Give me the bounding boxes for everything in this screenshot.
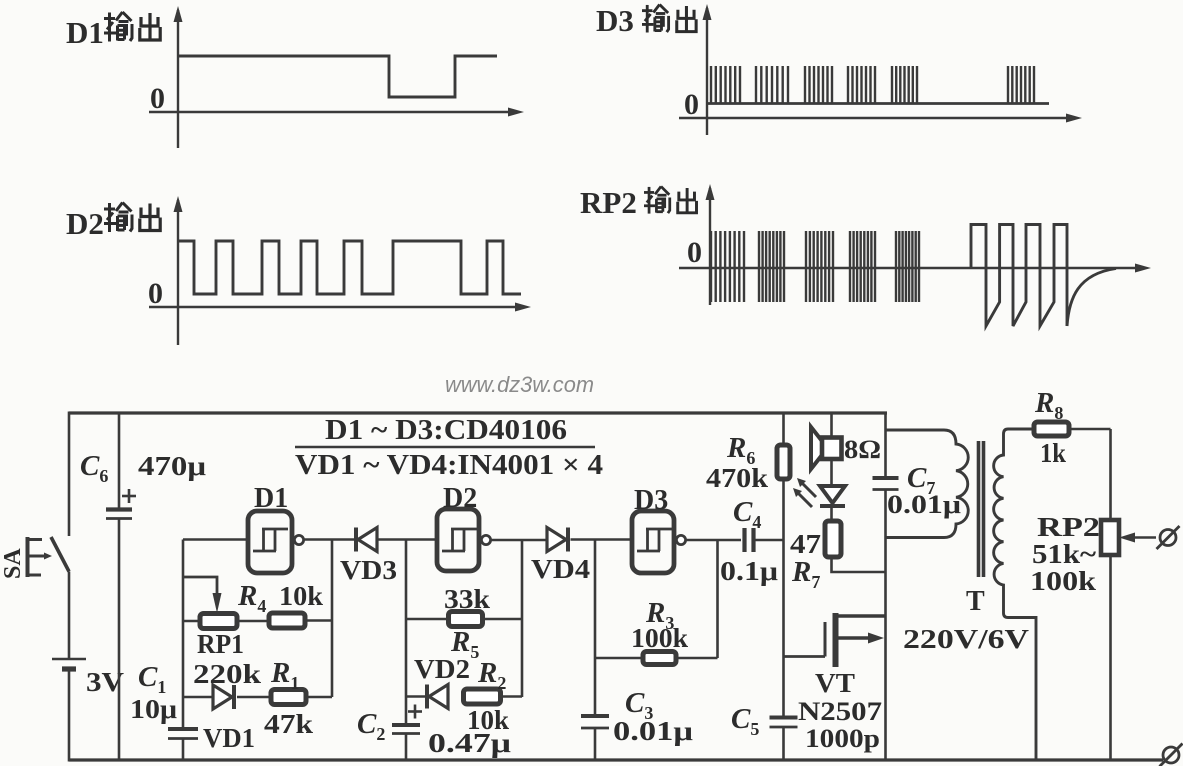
label 33k xyxy=(444,584,490,614)
D3 output pulse bursts xyxy=(711,66,1034,103)
svg-text:VD4: VD4 xyxy=(531,554,590,584)
svg-text:www.dz3w.com: www.dz3w.com xyxy=(445,372,594,397)
label VD1 xyxy=(203,723,255,753)
transformer T core xyxy=(979,441,984,577)
svg-text:1k: 1k xyxy=(1040,438,1066,468)
label VD4 xyxy=(531,554,590,584)
label 10k (R4) xyxy=(279,581,323,611)
diode VD4 xyxy=(547,528,633,552)
label 3V xyxy=(86,667,125,697)
svg-text:220k: 220k xyxy=(193,659,261,689)
potentiometer RP1 body xyxy=(183,614,269,629)
D1 plot horizontal axis xyxy=(149,108,524,117)
label R6 xyxy=(726,432,755,468)
wire: D2 output to VD4 xyxy=(491,539,547,542)
svg-text:51k~: 51k~ xyxy=(1032,539,1096,569)
svg-text:0.01μ: 0.01μ xyxy=(613,716,693,746)
capacitor C1 xyxy=(168,729,198,761)
D3 trace baseline xyxy=(707,102,1049,105)
wire: R6 branch rail xyxy=(782,413,785,718)
svg-text:D2: D2 xyxy=(443,483,477,514)
label 100k (R3) xyxy=(631,623,688,653)
resistor R6 xyxy=(777,445,790,479)
wire: R3 right rail xyxy=(716,540,719,658)
resistor R8 xyxy=(1034,422,1111,436)
label: D2 output waveform title xyxy=(66,203,160,242)
svg-text:RP2: RP2 xyxy=(1037,512,1100,542)
transistor VT (MOSFET) xyxy=(784,613,886,667)
wire: D3 output to C4 xyxy=(686,539,741,542)
capacitor C6 xyxy=(106,510,132,519)
potentiometer RP2 body xyxy=(1101,520,1119,555)
D3 plot zero label xyxy=(684,88,699,121)
svg-text:470μ: 470μ xyxy=(138,451,206,481)
svg-text:0: 0 xyxy=(148,277,163,310)
label 1k xyxy=(1040,438,1066,468)
D2 plot horizontal axis xyxy=(149,303,531,312)
label: D1 output waveform title xyxy=(66,12,160,50)
svg-text:T: T xyxy=(966,586,985,617)
wire: right rail (drain/output) xyxy=(884,413,887,761)
label R5 xyxy=(450,626,479,662)
wire: speaker to LED xyxy=(830,459,833,487)
switch SA xyxy=(28,537,70,577)
RP2 exponential decay tail xyxy=(1067,269,1116,327)
transformer T primary winding xyxy=(886,430,969,538)
svg-text:100k: 100k xyxy=(631,623,688,653)
RP2 plot horizontal axis xyxy=(679,264,1151,273)
wire: left rail bottom segment xyxy=(68,669,71,762)
label SA (rotated) xyxy=(0,548,26,579)
diode VD3 xyxy=(356,528,439,552)
svg-text:VD1 ~ VD4:IN4001 × 4: VD1 ~ VD4:IN4001 × 4 xyxy=(295,450,603,481)
svg-text:VD1: VD1 xyxy=(203,723,255,753)
label 8ohm xyxy=(844,435,881,464)
C2 polarity plus xyxy=(408,705,422,719)
battery 3V xyxy=(52,659,86,669)
label R2 xyxy=(477,657,506,693)
svg-text:100k: 100k xyxy=(1030,566,1096,596)
wire: speaker branch from top rail xyxy=(830,413,833,438)
wire: RP2 to bottom rail xyxy=(1109,555,1112,761)
wire: C6 branch vertical xyxy=(118,413,121,761)
capacitor C7 xyxy=(873,478,899,490)
LED emission arrows xyxy=(793,478,816,507)
RP2 plot vertical axis xyxy=(706,184,715,305)
label: D3 output waveform title xyxy=(596,3,696,38)
capacitor C3 xyxy=(581,716,609,761)
svg-text:N2507: N2507 xyxy=(798,697,882,726)
title line 2: VD1~VD4 IN4001 x4 xyxy=(295,450,603,481)
svg-text:0.01μ: 0.01μ xyxy=(887,490,961,519)
schmitt inverter D2 xyxy=(437,509,491,571)
svg-text:D2: D2 xyxy=(66,206,104,241)
label R1 xyxy=(270,657,299,693)
label 220k xyxy=(193,659,261,689)
label 47k xyxy=(264,709,313,739)
label C6 xyxy=(80,450,108,486)
svg-text:RP2: RP2 xyxy=(580,185,637,220)
svg-text:0: 0 xyxy=(150,82,165,115)
resistor R2 xyxy=(464,689,523,704)
resistor R3 xyxy=(595,652,718,665)
D1 output trace xyxy=(178,56,497,97)
C6 polarity plus xyxy=(122,489,136,503)
wire: D2 feedback right rail xyxy=(521,540,524,697)
resistor R1 xyxy=(271,690,332,705)
label 0.01u (C7) xyxy=(887,490,961,519)
D2 plot vertical axis xyxy=(174,196,183,345)
label R8 xyxy=(1034,387,1063,423)
svg-text:0: 0 xyxy=(684,88,699,121)
svg-text:470k: 470k xyxy=(706,463,768,493)
label C2 xyxy=(357,708,385,744)
svg-text:D1: D1 xyxy=(254,483,288,514)
wire: D2 input rail xyxy=(405,540,408,726)
schmitt inverter D3 xyxy=(632,511,686,573)
svg-text:33k: 33k xyxy=(444,584,490,614)
label D1 xyxy=(254,483,288,514)
label C7 xyxy=(907,462,935,498)
RP2 wiper arrow and output terminal xyxy=(1119,526,1180,549)
D3 plot horizontal axis xyxy=(679,114,1082,123)
label VT xyxy=(815,668,855,698)
wire: left rail top segment xyxy=(68,412,71,537)
label D3 xyxy=(634,485,668,516)
svg-text:D1 ~ D3:CD40106: D1 ~ D3:CD40106 xyxy=(325,415,567,446)
D1 plot vertical axis xyxy=(174,6,183,148)
label 100k (RP2) xyxy=(1030,566,1096,596)
capacitor C2 xyxy=(392,725,420,761)
svg-text:47: 47 xyxy=(790,529,821,559)
wire: LED to R7 xyxy=(830,506,833,521)
diode VD2 xyxy=(406,685,448,709)
speaker LS 8ohm xyxy=(811,427,842,469)
label 0.01u (C3) xyxy=(613,716,693,746)
wire: top supply rail xyxy=(69,411,887,414)
label 47 (R7) xyxy=(790,529,821,559)
D3 plot vertical axis xyxy=(703,4,712,135)
label N2507 xyxy=(798,697,882,726)
svg-text:8Ω: 8Ω xyxy=(844,435,881,464)
D2 output trace xyxy=(178,241,521,294)
label C3 xyxy=(625,687,653,723)
label R7 xyxy=(791,556,820,592)
label 1000p xyxy=(805,724,880,753)
capacitor C5 xyxy=(770,718,798,762)
LED (light emitting diode) xyxy=(820,486,845,506)
label RP1 xyxy=(197,629,244,659)
D1 plot zero label xyxy=(150,82,165,115)
label VD3 xyxy=(340,555,397,585)
potentiometer RP1 wiper arm xyxy=(183,577,222,613)
svg-text:0.47μ: 0.47μ xyxy=(428,728,511,758)
label 10u xyxy=(130,694,177,724)
RP2 bipolar pulse bursts xyxy=(711,231,919,302)
D2 plot zero label xyxy=(148,277,163,310)
label 10k (R2) xyxy=(467,705,509,735)
svg-text:0: 0 xyxy=(687,236,702,269)
label C4 xyxy=(733,496,761,532)
capacitor C4 xyxy=(745,528,784,552)
wire: R8 to RP2 rail xyxy=(1109,429,1112,521)
resistor R4 xyxy=(269,613,332,628)
label 51k~ xyxy=(1032,539,1096,569)
svg-text:VD3: VD3 xyxy=(340,555,397,585)
RP2 large output pulses with flyback xyxy=(971,225,1067,327)
label R3 xyxy=(645,597,674,633)
wire: D1 output to VD3 xyxy=(304,538,356,541)
label VD2 xyxy=(414,654,470,684)
svg-text:VD2: VD2 xyxy=(414,654,470,684)
svg-text:1000p: 1000p xyxy=(805,724,880,753)
label D2 xyxy=(443,483,477,514)
svg-text:VT: VT xyxy=(815,668,855,698)
svg-text:220V/6V: 220V/6V xyxy=(903,624,1030,654)
title line 1: D1~D3 CD40106 xyxy=(325,415,567,446)
label 470u xyxy=(138,451,206,481)
svg-text:47k: 47k xyxy=(264,709,313,739)
resistor R7 xyxy=(825,521,841,557)
schmitt inverter D1 xyxy=(248,511,304,573)
transformer T secondary winding xyxy=(994,429,1036,761)
label 0.1u xyxy=(720,556,778,586)
watermark www.dz3w.com xyxy=(445,372,594,397)
label RP2 xyxy=(1037,512,1100,542)
label: RP2 output waveform title xyxy=(580,185,697,220)
svg-text:10μ: 10μ xyxy=(130,694,177,724)
wire: D1 feedback right rail xyxy=(331,540,334,698)
label T xyxy=(966,586,985,617)
wire: left rail mid segment xyxy=(68,572,71,660)
label R4 xyxy=(237,580,266,616)
label 220V/6V xyxy=(903,624,1030,654)
wire: bottom ground rail xyxy=(69,758,1163,761)
svg-text:0.1μ: 0.1μ xyxy=(720,556,778,586)
diode VD1 xyxy=(183,685,271,709)
label 470k xyxy=(706,463,768,493)
svg-text:10k: 10k xyxy=(279,581,323,611)
wire: R7 bottom to right rail xyxy=(832,557,886,572)
label C5 xyxy=(731,703,759,739)
svg-text:D3: D3 xyxy=(634,485,668,516)
svg-text:SA: SA xyxy=(0,548,26,579)
wire: D3 input rail xyxy=(594,540,597,717)
svg-text:D3: D3 xyxy=(596,3,634,38)
label 0.47u xyxy=(428,728,511,758)
title divider line xyxy=(295,446,595,449)
label C1 xyxy=(138,661,166,697)
wire: D1 input node rail xyxy=(183,540,248,730)
svg-text:D1: D1 xyxy=(66,15,104,50)
RP2 plot zero label xyxy=(687,236,702,269)
output terminal (bottom right) xyxy=(1160,744,1183,766)
resistor R5 xyxy=(406,612,522,627)
svg-text:RP1: RP1 xyxy=(197,629,244,659)
